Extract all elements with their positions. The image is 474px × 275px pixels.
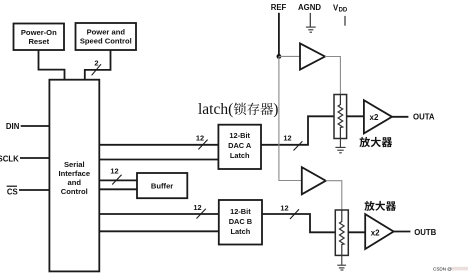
wire: serial to DAC A latch (12-bit bus)	[99, 144, 218, 146]
wire: DAC A latch to resistor string A (12-bit)	[261, 116, 334, 145]
wire: lower buffer output to resistor string B top	[326, 181, 342, 210]
pin REF	[271, 3, 287, 56]
svg-text:Power-On: Power-On	[21, 28, 57, 37]
svg-text:Latch: Latch	[231, 227, 251, 236]
svg-text:DAC A: DAC A	[228, 141, 252, 150]
svg-text:Serial: Serial	[64, 160, 85, 169]
wire: serial to Buffer (lower)	[99, 188, 137, 190]
bus width marker: 12 (DAC B input)	[193, 203, 205, 219]
svg-text:Reset: Reset	[28, 37, 49, 46]
block: 12-Bit DAC A Latch	[218, 125, 261, 169]
svg-text:latch(: latch(	[198, 101, 233, 118]
wire: x2 amp B to OUTB	[394, 231, 411, 233]
bus width marker: 2	[92, 59, 101, 76]
bus width marker: 12 (DAC B output)	[280, 204, 299, 220]
wire: resistor string A wiper to x2 amp A	[347, 115, 364, 117]
svg-text:12: 12	[196, 134, 204, 143]
op-amp: x2 output amplifier A	[364, 100, 392, 133]
annotation: 放大器 (amplifier B)	[364, 201, 396, 211]
watermark: CSDN	[433, 267, 468, 272]
pin AGND	[298, 3, 321, 27]
wire: serial to DAC B latch (control)	[99, 230, 219, 232]
pin VDD	[333, 3, 348, 25]
resistor string B (DAC B ladder)	[335, 210, 348, 255]
ground symbol: below resistor string B	[337, 255, 346, 270]
svg-text:12: 12	[280, 204, 288, 213]
svg-text:): )	[273, 101, 278, 118]
resistor string A (DAC A ladder)	[334, 95, 347, 139]
bus width marker: 12 (Buffer input)	[110, 167, 121, 185]
svg-text:Interface: Interface	[58, 169, 90, 178]
block: Buffer	[137, 173, 187, 198]
block: Power-On Reset	[14, 24, 65, 51]
block: Power and Speed Control	[76, 23, 137, 50]
wire: resistor string B wiper to x2 amp B	[348, 231, 365, 233]
svg-text:Control: Control	[61, 187, 88, 196]
svg-text:x2: x2	[370, 113, 379, 122]
op-amp: lower reference buffer	[302, 167, 326, 194]
block U1: Serial Interface and Control	[49, 80, 99, 272]
svg-text:12-Bit: 12-Bit	[230, 207, 251, 216]
svg-text:REF: REF	[271, 3, 287, 12]
bus width marker: 12 (DAC A input)	[196, 134, 208, 150]
svg-text:DAC B: DAC B	[229, 217, 252, 226]
bus width marker: 12 (DAC A output)	[283, 134, 302, 151]
wire: x2 amp A to OUTA	[392, 116, 408, 118]
op-amp: x2 output amplifier B	[365, 214, 393, 249]
wire: serial to DAC A latch (control)	[99, 159, 218, 161]
op-amp: upper reference buffer	[300, 43, 325, 69]
svg-text:DD: DD	[339, 8, 348, 14]
wire: serial to DAC B latch (12-bit bus)	[99, 213, 219, 215]
annotation: 放大器 (amplifier A)	[359, 137, 392, 147]
wire: upper buffer output to resistor string A top	[325, 57, 340, 95]
annotation: latch(锁存器)	[198, 101, 278, 118]
wire: Power-On Reset to Serial Interface	[39, 50, 65, 80]
wire: REF rail down to lower reference buffer	[279, 56, 302, 180]
node: REF junction dot	[277, 54, 282, 59]
svg-text:DIN: DIN	[6, 122, 20, 131]
wire: DAC B latch to resistor string B (12-bit)	[262, 214, 335, 232]
pin SCLK	[0, 154, 49, 163]
block: 12-Bit DAC B Latch	[219, 200, 262, 245]
svg-text:Power and: Power and	[87, 28, 126, 37]
ground symbol: below resistor string A	[335, 139, 345, 153]
svg-text:OUTB: OUTB	[414, 228, 436, 237]
svg-text:2: 2	[94, 59, 98, 68]
svg-text:CSDN @: CSDN @	[433, 267, 452, 272]
pin CS (active low)	[7, 186, 50, 196]
svg-text:OUTA: OUTA	[413, 113, 435, 122]
wire: REF junction to upper reference buffer	[279, 55, 300, 57]
svg-text:12: 12	[193, 203, 201, 212]
wire: Power and Speed Control to Serial Interface (2-bit bus)	[85, 50, 111, 80]
wire: serial to Buffer (12-bit bus)	[99, 179, 137, 181]
ground symbol: AGND	[306, 27, 316, 32]
svg-text:12: 12	[110, 167, 118, 176]
svg-text:12-Bit: 12-Bit	[229, 131, 250, 140]
svg-text:Speed Control: Speed Control	[80, 37, 132, 46]
svg-text:and: and	[68, 178, 82, 187]
svg-text:Latch: Latch	[230, 151, 250, 160]
pin DIN	[6, 122, 50, 131]
svg-text:SCLK: SCLK	[0, 154, 19, 163]
svg-text:AGND: AGND	[298, 3, 321, 12]
svg-text:Buffer: Buffer	[151, 181, 173, 190]
svg-text:x2: x2	[371, 228, 380, 237]
svg-text:CS: CS	[7, 187, 18, 196]
svg-text:12: 12	[283, 134, 291, 143]
